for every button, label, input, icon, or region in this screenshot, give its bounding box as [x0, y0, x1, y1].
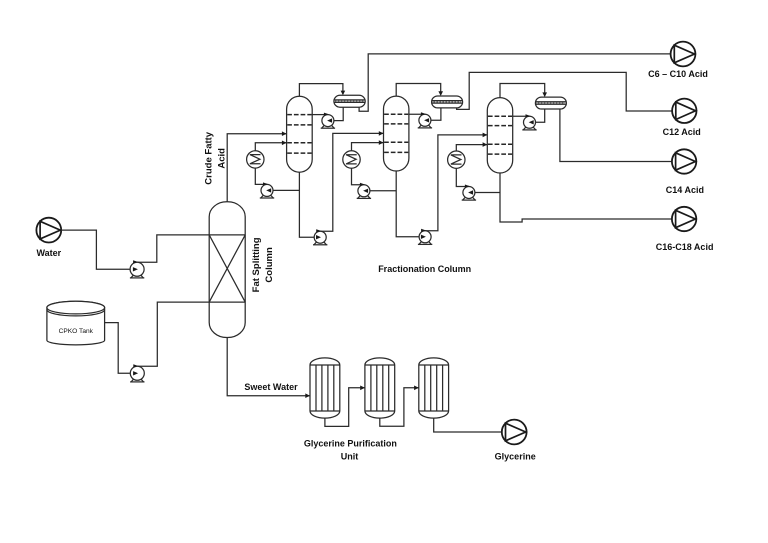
wire pump P9 discharge to C3: [425, 135, 487, 231]
wire heater H3 bottom to pump: [456, 168, 469, 186]
wire C2 bottoms: [396, 171, 425, 237]
arrow feed C2: [379, 131, 384, 136]
wire pump P3 discharge to column: [137, 302, 209, 366]
column C3: [487, 98, 512, 173]
arrow into condenser E3: [542, 92, 547, 97]
wire E3 reflux to pump: [530, 109, 545, 122]
wire E2 distillate riser C12: [457, 72, 672, 111]
heater H1: [247, 151, 264, 168]
wire C1 overhead vapor: [299, 84, 343, 97]
wire heater H3 to column C3: [456, 145, 487, 152]
svg-text:Water: Water: [36, 248, 61, 258]
pump P-C6-C10: [671, 42, 696, 67]
wire pump P6 discharge to C2: [320, 133, 383, 231]
wire pump P2 discharge to column: [137, 235, 209, 262]
wire crude fatty acid to column C1: [227, 134, 286, 202]
pump P-C16-C18: [672, 207, 696, 231]
arrow heater return C3: [483, 142, 488, 147]
wire C3 bottoms to C16-C18 pump: [500, 173, 672, 222]
svg-text:C6 – C10 Acid: C6 – C10 Acid: [648, 69, 708, 79]
svg-text:C12 Acid: C12 Acid: [663, 127, 701, 137]
wire C3 side draw: [513, 115, 530, 117]
pump P9 bottoms C2: [418, 229, 432, 245]
wire C1 bottoms: [299, 172, 320, 237]
svg-text:Fractionation Column: Fractionation Column: [378, 264, 471, 274]
wire V2 to V3: [380, 388, 419, 426]
wire E3 distillate to C14 pump: [560, 109, 672, 162]
svg-text:Glycerine: Glycerine: [495, 451, 536, 461]
arrow feed V1: [305, 393, 310, 398]
heater H3: [448, 151, 465, 168]
condenser E3: [535, 97, 566, 109]
pump P7 reflux C2: [418, 112, 432, 128]
vessel V3: [419, 358, 449, 418]
arrow feed V2: [360, 386, 365, 391]
pump P10 reflux C3: [522, 114, 536, 130]
wire E1 distillate riser C6-C10: [359, 54, 671, 111]
pump P3 CPKO feed: [130, 364, 144, 382]
wire heater H1 bottom to pump: [255, 168, 267, 184]
pump P-water: [36, 218, 61, 243]
pump P-glycerine: [502, 420, 527, 445]
arrow feed C3: [483, 133, 488, 138]
wire heater H2 bottom to pump: [352, 168, 364, 185]
vessel V1: [310, 358, 340, 418]
wire E1 reflux to pump: [328, 107, 343, 120]
svg-text:Fat SplittingColumn: Fat SplittingColumn: [251, 237, 275, 292]
tank CPKO: [47, 301, 105, 345]
pump P6 bottoms C1: [313, 229, 327, 245]
arrow feed C1: [282, 131, 287, 136]
wire heater H1 to column C1: [255, 143, 286, 151]
wire water to pump P2: [61, 230, 137, 269]
wire CPKO outlet to pump P3: [105, 323, 138, 374]
arrow into condenser E2: [438, 91, 443, 96]
svg-text:Sweet Water: Sweet Water: [244, 382, 298, 392]
condenser E2: [432, 96, 463, 108]
wire heater H2 to column C2: [352, 143, 384, 151]
svg-text:Glycerine PurificationUnit: Glycerine PurificationUnit: [304, 439, 397, 462]
pump P11 reboiler C3: [462, 185, 476, 201]
vessel V2: [365, 358, 395, 418]
svg-text:CPKO Tank: CPKO Tank: [59, 328, 94, 335]
pump P8 reboiler C2: [357, 183, 371, 199]
heater H2: [343, 151, 360, 168]
wire C1 side draw: [312, 114, 328, 116]
svg-text:C16-C18 Acid: C16-C18 Acid: [656, 242, 714, 252]
wire C2 overhead vapor: [396, 84, 441, 97]
wire pump P11 suction tee: [475, 192, 500, 194]
pump P5 reboiler C1: [260, 182, 274, 198]
wire C3 overhead vapor: [500, 84, 545, 98]
pump P-C12: [672, 99, 696, 123]
arrow heater return C1: [282, 141, 287, 146]
condenser E1: [334, 95, 365, 107]
svg-text:Crude FattyAcid: Crude FattyAcid: [204, 131, 228, 185]
wire pump P8 suction tee: [370, 190, 396, 192]
arrow feed V3: [414, 386, 419, 391]
pump P2 water feed: [130, 260, 144, 278]
column C2: [384, 96, 409, 171]
wire V3 to glycerine pump: [434, 418, 502, 432]
arrow into condenser E1: [341, 91, 346, 96]
wire C2 side draw: [409, 113, 425, 115]
pump P4 reflux C1: [321, 113, 335, 129]
pump P-C14: [672, 149, 696, 173]
column fat splitting: [209, 202, 245, 338]
wire E2 reflux to pump: [425, 108, 441, 120]
svg-text:C14 Acid: C14 Acid: [666, 185, 704, 195]
column C1: [287, 96, 313, 172]
arrow heater return C2: [379, 140, 384, 145]
wire pump P5 suction tee: [273, 189, 299, 191]
wire V1 to V2: [325, 388, 365, 427]
wire sweet water to vessel V1: [227, 338, 310, 396]
